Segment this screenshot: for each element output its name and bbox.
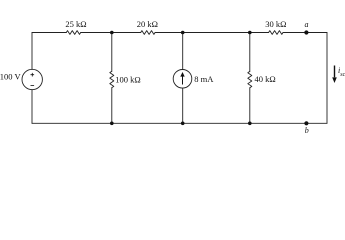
short-circuit current isc arrow (points down)	[332, 66, 337, 84]
resistor R2 20 kOhm (zigzag)	[141, 31, 155, 35]
svg-text:8 mA: 8 mA	[194, 74, 214, 84]
wire branch I1 bottom	[182, 88, 184, 123]
wire left edge above source V1	[31, 33, 33, 70]
resistor R3 30 kOhm (zigzag)	[269, 31, 283, 35]
current source I1 arrow (points up)	[180, 72, 184, 85]
wire branch I1 top	[182, 33, 184, 70]
voltage source V1 100 V (circle)	[22, 69, 42, 89]
wire branch R5 top	[249, 33, 251, 72]
svg-text:isc: isc	[338, 66, 345, 78]
node a terminal dot	[304, 30, 308, 34]
svg-text:100 kΩ: 100 kΩ	[115, 74, 140, 84]
wire top rail segment: R3 through node a to right corner	[283, 32, 327, 34]
svg-text:100 V: 100 V	[0, 72, 21, 82]
minus sign of source V1	[31, 85, 35, 87]
resistor R1 25 kOhm (zigzag)	[66, 31, 80, 35]
wire branch R4 top	[111, 33, 113, 72]
junction bottom of I1 branch	[181, 122, 185, 126]
wire branch R4 bottom	[111, 88, 113, 124]
wire left edge below source V1	[31, 90, 33, 124]
svg-text:a: a	[305, 20, 309, 29]
wire bottom rail	[32, 122, 327, 124]
wire branch R5 bottom	[249, 88, 251, 124]
svg-text:b: b	[305, 126, 309, 135]
current source I1 8 mA (circle)	[173, 70, 192, 89]
svg-text:25 kΩ: 25 kΩ	[65, 19, 86, 29]
junction top of I1 branch	[181, 31, 185, 35]
node b terminal dot	[304, 121, 308, 125]
svg-text:30 kΩ: 30 kΩ	[265, 19, 286, 29]
wire top rail segment: R2 to R3	[155, 32, 269, 34]
junction top of R4 branch	[110, 31, 114, 35]
junction top of R5 branch	[248, 31, 252, 35]
wire top rail segment: R1 to R2	[81, 32, 141, 34]
resistor R4 100 kOhm (vertical zigzag)	[110, 71, 114, 87]
svg-text:40 kΩ: 40 kΩ	[255, 74, 276, 84]
junction bottom of R4 branch	[110, 122, 114, 126]
plus sign of source V1	[31, 73, 35, 77]
resistor R5 40 kOhm (vertical zigzag)	[248, 71, 252, 87]
svg-text:20 kΩ: 20 kΩ	[137, 19, 158, 29]
junction bottom of R5 branch	[248, 122, 252, 126]
wire top rail segment: left corner to R1	[32, 32, 66, 34]
wire right edge (node a to node b)	[326, 33, 328, 124]
